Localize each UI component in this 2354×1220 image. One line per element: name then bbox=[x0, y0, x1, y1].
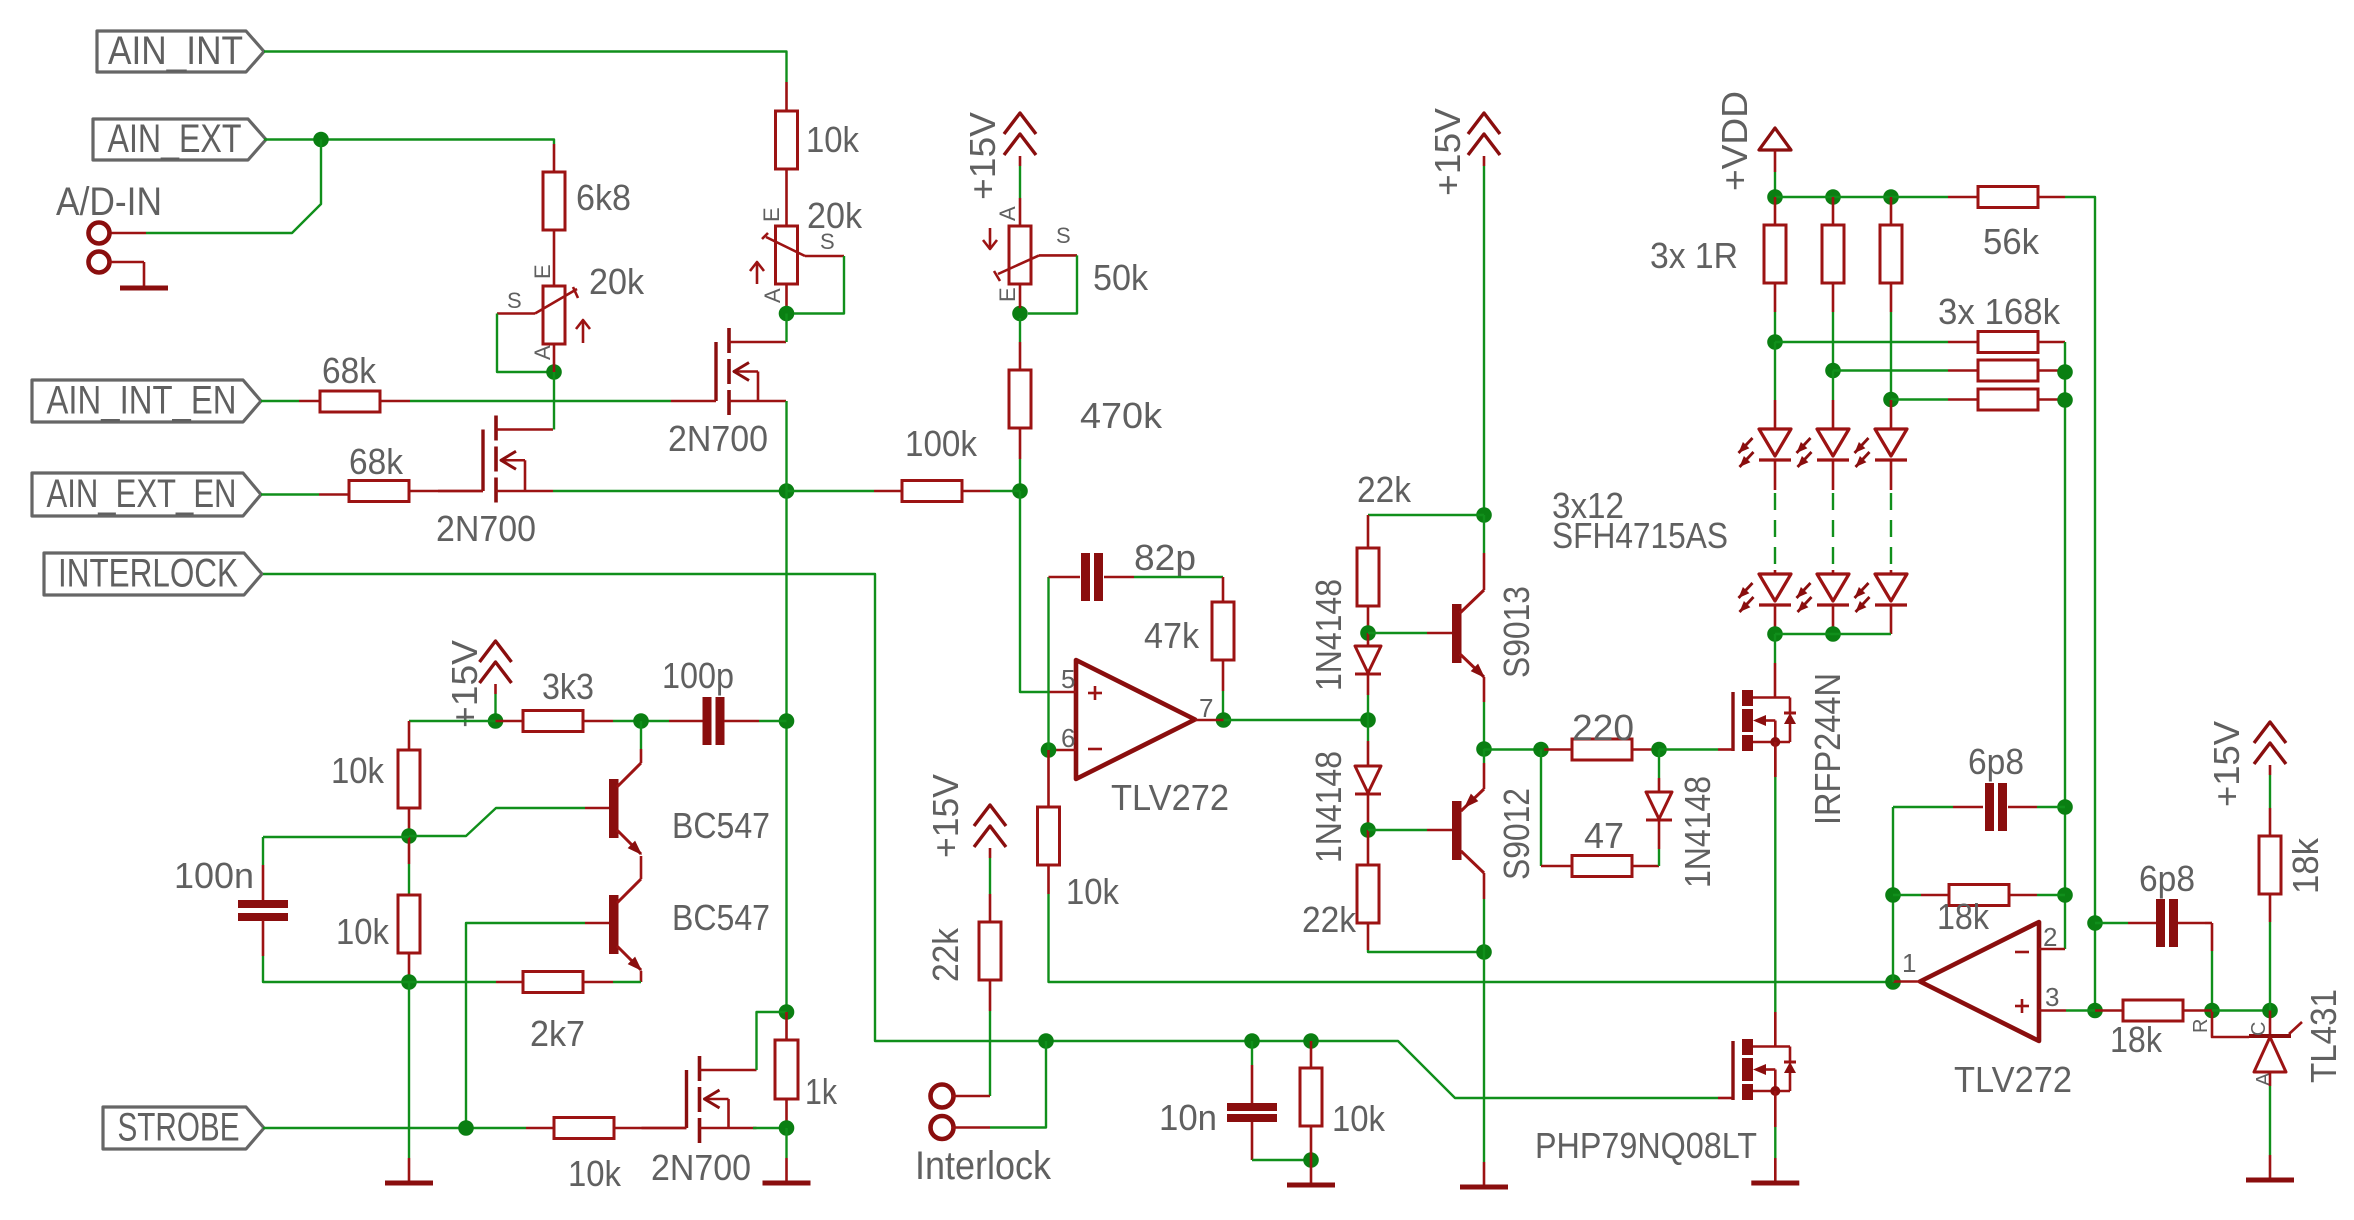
svg-text:18k: 18k bbox=[1937, 896, 1990, 937]
svg-text:1: 1 bbox=[1902, 948, 1916, 978]
svg-text:22k: 22k bbox=[1302, 899, 1357, 940]
svg-text:18k: 18k bbox=[2110, 1019, 2163, 1060]
svg-text:56k: 56k bbox=[1983, 221, 2040, 262]
svg-text:18k: 18k bbox=[2285, 837, 2326, 894]
svg-text:22k: 22k bbox=[925, 927, 966, 982]
svg-text:3x 1R: 3x 1R bbox=[1650, 235, 1738, 276]
svg-text:10k: 10k bbox=[1332, 1098, 1386, 1139]
svg-text:+15V: +15V bbox=[444, 640, 485, 728]
svg-text:100k: 100k bbox=[905, 423, 978, 464]
svg-text:E: E bbox=[530, 264, 555, 279]
svg-text:47: 47 bbox=[1584, 815, 1624, 856]
svg-text:A/D-IN: A/D-IN bbox=[56, 180, 162, 224]
svg-text:50k: 50k bbox=[1093, 257, 1149, 298]
svg-text:BC547: BC547 bbox=[672, 805, 770, 846]
svg-text:C: C bbox=[2248, 1022, 2270, 1036]
svg-text:E: E bbox=[759, 207, 784, 222]
svg-text:AIN_INT_EN: AIN_INT_EN bbox=[47, 379, 237, 423]
svg-text:10k: 10k bbox=[1066, 871, 1120, 912]
svg-text:20k: 20k bbox=[589, 261, 645, 302]
svg-text:INTERLOCK: INTERLOCK bbox=[58, 552, 238, 596]
svg-text:2N700: 2N700 bbox=[668, 418, 768, 459]
svg-text:R: R bbox=[2190, 1019, 2212, 1033]
svg-text:220: 220 bbox=[1572, 707, 1634, 748]
svg-text:7: 7 bbox=[1199, 693, 1213, 723]
svg-text:22k: 22k bbox=[1357, 469, 1412, 510]
svg-text:Interlock: Interlock bbox=[915, 1144, 1052, 1188]
svg-text:TL431: TL431 bbox=[2303, 989, 2344, 1083]
svg-text:6p8: 6p8 bbox=[2139, 858, 2195, 899]
svg-text:TLV272: TLV272 bbox=[1954, 1059, 2072, 1100]
svg-text:2N700: 2N700 bbox=[436, 508, 536, 549]
svg-text:+15V: +15V bbox=[1427, 108, 1468, 196]
svg-text:3x 168k: 3x 168k bbox=[1938, 291, 2061, 332]
svg-text:68k: 68k bbox=[322, 350, 377, 391]
svg-text:470k: 470k bbox=[1080, 395, 1163, 436]
svg-text:2k7: 2k7 bbox=[530, 1013, 585, 1054]
svg-text:AIN_INT: AIN_INT bbox=[108, 29, 243, 73]
svg-text:STROBE: STROBE bbox=[118, 1106, 240, 1150]
svg-text:A: A bbox=[530, 345, 555, 360]
svg-text:47k: 47k bbox=[1144, 615, 1200, 656]
svg-text:PHP79NQ08LT: PHP79NQ08LT bbox=[1535, 1125, 1757, 1166]
svg-text:20k: 20k bbox=[807, 195, 863, 236]
svg-text:100p: 100p bbox=[662, 655, 734, 696]
svg-text:IRFP244N: IRFP244N bbox=[1807, 673, 1848, 825]
svg-text:6p8: 6p8 bbox=[1968, 741, 2024, 782]
svg-text:2: 2 bbox=[2043, 922, 2057, 952]
svg-text:S: S bbox=[507, 288, 522, 313]
svg-text:AIN_EXT_EN: AIN_EXT_EN bbox=[47, 472, 237, 516]
svg-text:3: 3 bbox=[2045, 982, 2059, 1012]
svg-text:10k: 10k bbox=[806, 119, 860, 160]
svg-text:S: S bbox=[1056, 223, 1071, 248]
svg-text:3k3: 3k3 bbox=[542, 666, 594, 707]
svg-text:S9013: S9013 bbox=[1496, 586, 1537, 678]
svg-text:10k: 10k bbox=[331, 750, 385, 791]
svg-text:10k: 10k bbox=[336, 911, 390, 952]
svg-text:1N4148: 1N4148 bbox=[1677, 776, 1718, 888]
svg-text:100n: 100n bbox=[174, 855, 254, 896]
svg-text:82p: 82p bbox=[1134, 537, 1196, 578]
svg-text:S: S bbox=[820, 229, 835, 254]
svg-text:10k: 10k bbox=[568, 1153, 622, 1194]
svg-text:TLV272: TLV272 bbox=[1111, 777, 1229, 818]
svg-text:1N4148: 1N4148 bbox=[1308, 751, 1349, 863]
svg-text:1k: 1k bbox=[805, 1071, 838, 1112]
svg-text:E: E bbox=[995, 287, 1020, 302]
svg-text:SFH4715AS: SFH4715AS bbox=[1552, 515, 1728, 556]
svg-text:5: 5 bbox=[1061, 664, 1075, 694]
svg-text:2N700: 2N700 bbox=[651, 1147, 751, 1188]
svg-text:10n: 10n bbox=[1159, 1097, 1217, 1138]
svg-text:A: A bbox=[995, 206, 1020, 221]
svg-text:BC547: BC547 bbox=[672, 897, 770, 938]
svg-text:+15V: +15V bbox=[925, 774, 966, 858]
svg-text:6k8: 6k8 bbox=[576, 177, 631, 218]
svg-text:S9012: S9012 bbox=[1496, 788, 1537, 880]
svg-text:+15V: +15V bbox=[2206, 721, 2247, 807]
svg-text:68k: 68k bbox=[349, 441, 404, 482]
svg-text:AIN_EXT: AIN_EXT bbox=[108, 117, 242, 161]
svg-text:+15V: +15V bbox=[962, 112, 1003, 200]
svg-text:A: A bbox=[760, 288, 785, 303]
svg-text:A: A bbox=[2253, 1072, 2275, 1086]
svg-text:+VDD: +VDD bbox=[1714, 91, 1755, 191]
svg-text:1N4148: 1N4148 bbox=[1308, 579, 1349, 691]
svg-text:6: 6 bbox=[1061, 723, 1075, 753]
